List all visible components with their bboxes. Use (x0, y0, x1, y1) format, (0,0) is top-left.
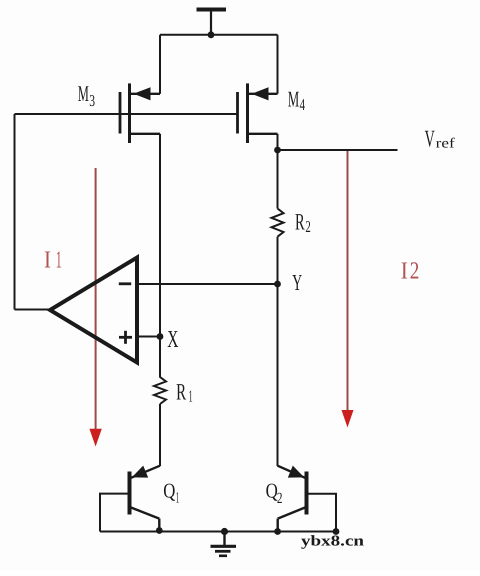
wire M3 source lead (159, 35, 161, 94)
wire op-amp output (15, 309, 53, 311)
wire R1 to Q1 (159, 404, 161, 466)
wire gate bus (15, 113, 238, 115)
transistor M3 (120, 83, 160, 143)
wire Vref output (278, 149, 398, 151)
wire Q1 base to rail (100, 494, 128, 532)
wire R2 to node Y (277, 237, 279, 284)
wire inverting input to node Y (139, 283, 278, 285)
svg-text:2: 2 (277, 490, 283, 507)
svg-text:ybx8.cn: ybx8.cn (301, 534, 365, 550)
svg-text:X: X (167, 326, 178, 353)
svg-text:1: 1 (56, 247, 62, 274)
transistor Q2 (278, 466, 307, 532)
label R2 (295, 209, 311, 236)
junction dot node Y (274, 281, 281, 288)
wire M4 drain to Vref node (277, 134, 279, 150)
junction dot Q1 collector (156, 527, 163, 534)
svg-text:M: M (78, 81, 89, 106)
junction dot VDD (208, 31, 215, 38)
resistor R1 (154, 377, 166, 404)
wire Q2 base to rail (308, 494, 336, 532)
current arrow I1 (89, 168, 101, 447)
current arrow I2 (342, 151, 354, 428)
wire M3 drain branch (159, 134, 161, 378)
svg-text:Q: Q (163, 479, 175, 503)
label Q2 (266, 479, 283, 507)
svg-text:2: 2 (410, 258, 420, 285)
label I2 (401, 258, 420, 285)
junction dot Q2 emitter (274, 528, 281, 535)
power supply VDD (197, 10, 227, 35)
label M4 (288, 87, 305, 114)
label Q1 (163, 479, 179, 507)
ground (211, 528, 237, 556)
label R1 (176, 380, 193, 406)
svg-text:ref: ref (436, 137, 455, 152)
wire non-inverting input to node X (139, 336, 160, 338)
label M3 (78, 81, 95, 110)
label Vref (425, 127, 456, 153)
wire bottom rail (100, 531, 336, 533)
svg-text:1: 1 (176, 489, 180, 506)
junction dot Vref node (274, 147, 281, 154)
svg-text:R: R (295, 209, 305, 235)
transistor M4 (238, 83, 278, 143)
svg-text:R: R (176, 380, 186, 406)
node X dot (157, 333, 164, 340)
wire M4 source lead (277, 35, 279, 94)
wire top rail (160, 34, 278, 36)
svg-text:M: M (288, 87, 299, 112)
label I1 (44, 247, 62, 274)
svg-text:1: 1 (189, 387, 193, 406)
junction dot rail right end (333, 528, 340, 535)
transistor Q1 (130, 466, 161, 532)
svg-text:V: V (425, 127, 435, 153)
resistor R2 (272, 209, 284, 237)
svg-text:I: I (401, 258, 408, 285)
svg-text:4: 4 (300, 95, 305, 114)
wire node Y branch to Q2 (277, 284, 279, 466)
svg-text:2: 2 (305, 217, 310, 236)
wire left feedback (14, 114, 16, 310)
svg-text:Y: Y (292, 270, 302, 295)
op-amp U1 (50, 258, 137, 363)
svg-text:3: 3 (89, 91, 95, 110)
svg-text:I: I (44, 247, 51, 274)
wire Vref node to R2 (277, 150, 279, 209)
